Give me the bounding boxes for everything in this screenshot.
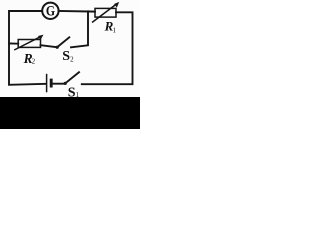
svg-text:G: G xyxy=(46,4,55,20)
svg-text:1: 1 xyxy=(113,26,117,34)
svg-text:2: 2 xyxy=(70,55,74,63)
svg-text:S: S xyxy=(62,49,70,64)
svg-text:1: 1 xyxy=(76,91,80,99)
svg-text:2: 2 xyxy=(32,58,36,66)
